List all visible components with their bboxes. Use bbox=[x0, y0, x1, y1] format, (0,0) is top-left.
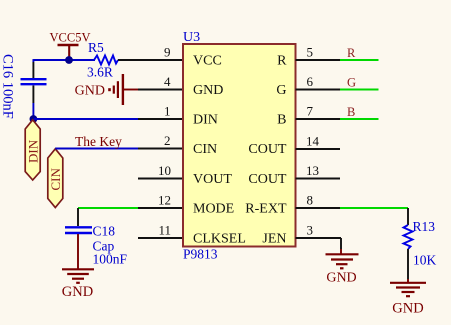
wire VCC horizontal bbox=[33, 59, 95, 61]
resistor R13 bbox=[404, 219, 437, 268]
wire pin 14 stub bbox=[296, 148, 341, 150]
svg-text:13: 13 bbox=[306, 163, 319, 178]
svg-text:COUT: COUT bbox=[248, 142, 287, 157]
wire pin 10 stub bbox=[138, 178, 183, 180]
junction VCC node bbox=[65, 56, 73, 64]
svg-text:GND: GND bbox=[193, 83, 223, 98]
wire R13 to ground bbox=[407, 249, 409, 279]
svg-text:B: B bbox=[347, 105, 355, 119]
svg-text:12: 12 bbox=[158, 193, 171, 208]
junction DIN node bbox=[30, 115, 38, 123]
svg-text:DIN: DIN bbox=[193, 113, 218, 128]
svg-text:7: 7 bbox=[307, 104, 314, 119]
wire C16 down to DIN node bbox=[32, 86, 34, 104]
wire net B green bbox=[340, 118, 379, 120]
svg-text:2: 2 bbox=[164, 133, 171, 148]
wire pin 11 stub bbox=[138, 237, 183, 239]
capacitor C18 bbox=[65, 224, 128, 267]
ground below R13 bbox=[390, 283, 426, 317]
svg-text:C18: C18 bbox=[93, 224, 116, 239]
wire C18 to ground bbox=[77, 234, 79, 269]
capacitor C16 bbox=[0, 54, 47, 119]
wire pin 1 (DIN) bbox=[33, 118, 138, 120]
svg-text:10K: 10K bbox=[413, 253, 437, 268]
svg-text:R13: R13 bbox=[413, 219, 436, 234]
svg-text:VOUT: VOUT bbox=[193, 172, 232, 187]
svg-text:CIN: CIN bbox=[193, 142, 217, 157]
ground at pin 3 bbox=[326, 254, 359, 285]
wire pin 7 stub bbox=[296, 118, 341, 120]
wire pin 9 to IC bbox=[118, 59, 183, 61]
port DIN bbox=[25, 120, 40, 180]
svg-text:5: 5 bbox=[307, 45, 314, 60]
wire net G green bbox=[340, 89, 379, 91]
wire pin 3 stub bbox=[296, 237, 342, 239]
svg-text:DIN: DIN bbox=[26, 139, 41, 163]
svg-text:GND: GND bbox=[392, 301, 423, 317]
svg-text:C16 100nF: C16 100nF bbox=[0, 54, 16, 119]
IC U3 box bbox=[183, 44, 296, 247]
wire net R green bbox=[340, 59, 379, 61]
svg-text:100nF: 100nF bbox=[93, 252, 128, 267]
wire pin 6 stub bbox=[296, 89, 341, 91]
svg-text:10: 10 bbox=[158, 163, 171, 178]
wire down to R13 bbox=[407, 208, 409, 225]
wire down from MODE to C18 bbox=[77, 208, 79, 226]
wire pin 2 (The Key) bbox=[55, 148, 138, 150]
svg-text:11: 11 bbox=[158, 223, 171, 238]
power flag VCC5V bbox=[50, 30, 91, 60]
wire pin 3 down bbox=[340, 238, 342, 249]
svg-text:VCC: VCC bbox=[193, 54, 222, 69]
wire pin 13 stub bbox=[296, 178, 341, 180]
svg-text:R5: R5 bbox=[88, 40, 104, 55]
wire left vertical (VCC node down to C16) bbox=[32, 59, 34, 62]
resistor R5 bbox=[87, 40, 118, 80]
svg-text:3: 3 bbox=[307, 223, 314, 238]
svg-text:3.6R: 3.6R bbox=[87, 65, 113, 80]
svg-text:1: 1 bbox=[164, 104, 171, 119]
svg-text:VCC5V: VCC5V bbox=[50, 30, 91, 44]
svg-text:R: R bbox=[347, 46, 356, 60]
port CIN bbox=[48, 149, 63, 208]
svg-text:R-EXT: R-EXT bbox=[245, 202, 287, 217]
svg-text:R: R bbox=[277, 54, 287, 69]
svg-text:8: 8 bbox=[307, 193, 314, 208]
svg-text:GND: GND bbox=[75, 84, 105, 99]
wire pin 4 bbox=[138, 89, 183, 91]
wire pin 12 (MODE) green bbox=[78, 207, 138, 209]
wire net R-EXT green bbox=[340, 207, 408, 209]
wire pin 8 stub bbox=[296, 207, 341, 209]
svg-text:B: B bbox=[277, 113, 286, 128]
svg-text:The Key: The Key bbox=[75, 134, 122, 149]
svg-text:6: 6 bbox=[307, 74, 314, 89]
svg-text:G: G bbox=[347, 76, 356, 90]
svg-text:9: 9 bbox=[164, 45, 171, 60]
svg-text:GND: GND bbox=[326, 271, 356, 286]
ground (power ground) at pin 4 bbox=[75, 74, 138, 105]
svg-text:G: G bbox=[276, 83, 286, 98]
ground below C18 bbox=[62, 269, 94, 300]
svg-text:JEN: JEN bbox=[262, 232, 286, 247]
svg-text:COUT: COUT bbox=[248, 172, 287, 187]
svg-text:4: 4 bbox=[164, 74, 171, 89]
svg-text:MODE: MODE bbox=[193, 202, 234, 217]
svg-text:GND: GND bbox=[62, 284, 93, 300]
wire pin 5 stub bbox=[296, 59, 341, 61]
svg-text:P9813: P9813 bbox=[183, 247, 218, 262]
svg-text:CLKSEL: CLKSEL bbox=[193, 232, 246, 247]
svg-text:CIN: CIN bbox=[48, 168, 63, 191]
svg-text:U3: U3 bbox=[183, 30, 200, 45]
svg-text:14: 14 bbox=[306, 134, 320, 149]
